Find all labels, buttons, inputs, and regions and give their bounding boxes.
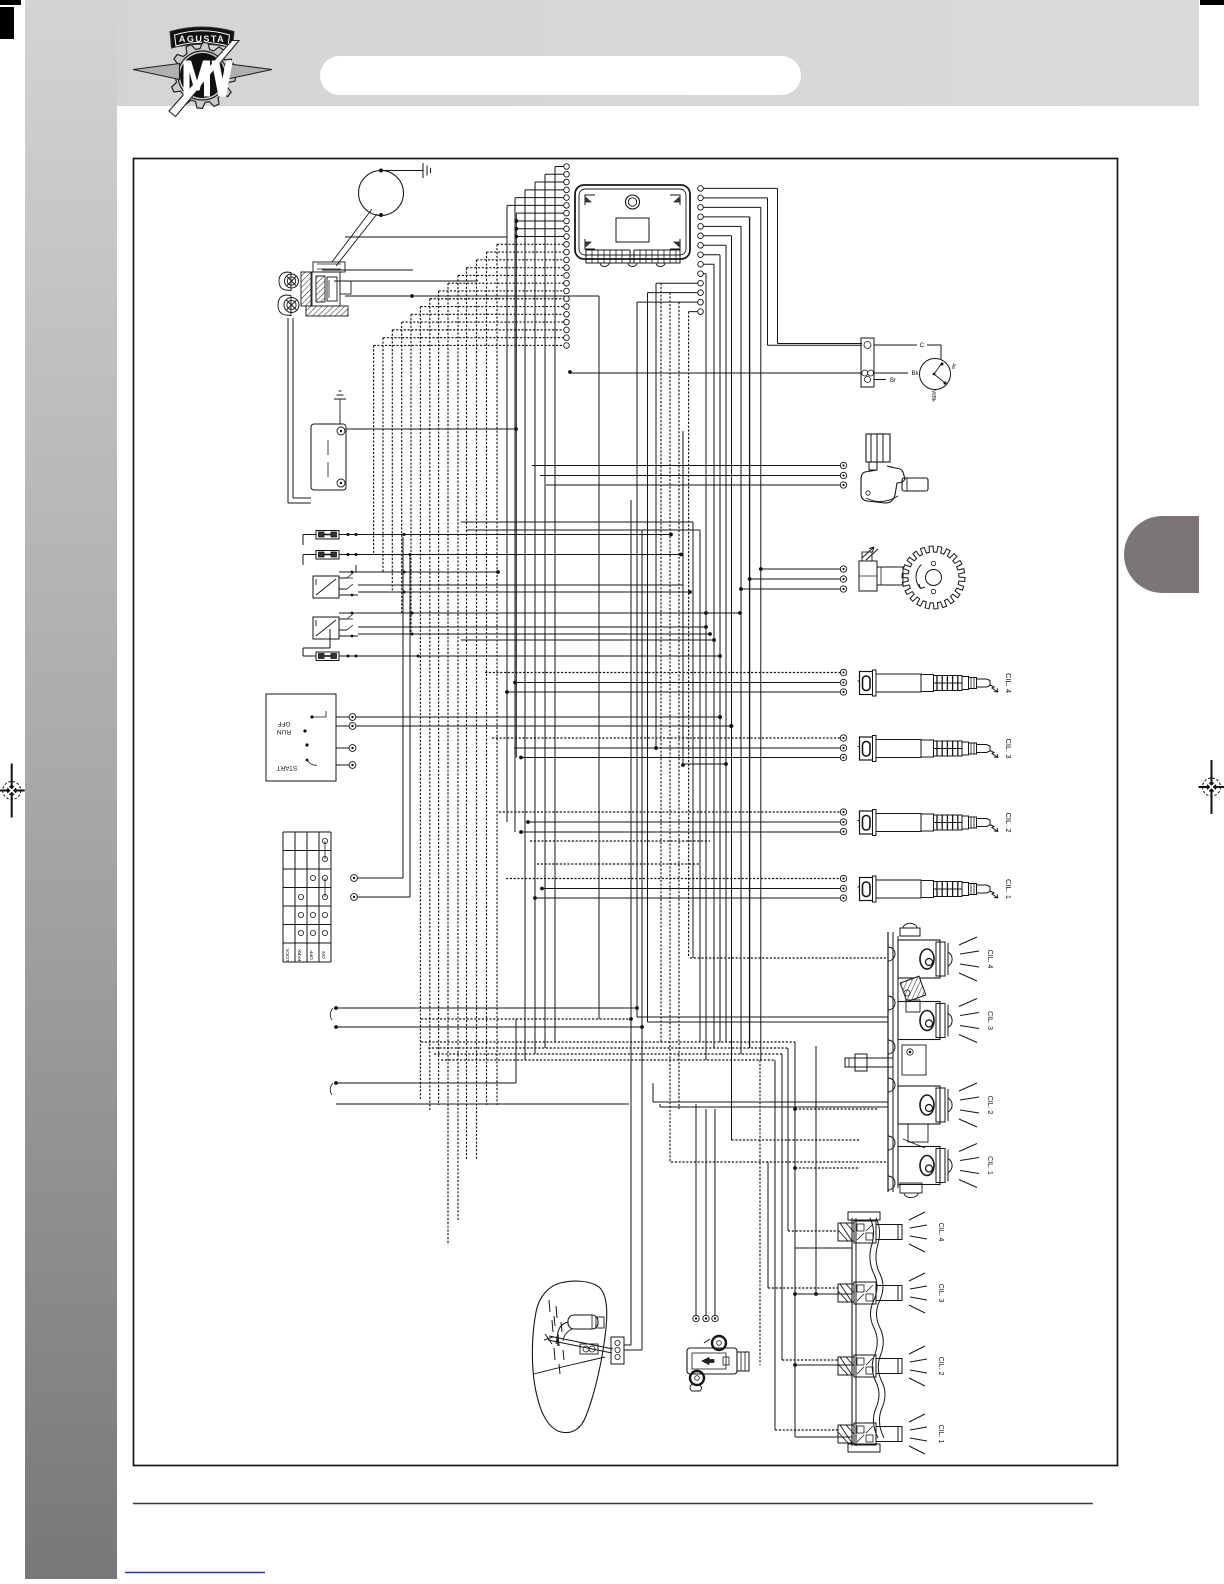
- svg-text:CIL. 4: CIL. 4: [1004, 673, 1013, 693]
- svg-text:CIL. 2: CIL. 2: [1004, 812, 1013, 832]
- svg-text:OFF: OFF: [277, 720, 290, 727]
- svg-text:OFF: OFF: [309, 950, 315, 960]
- svg-text:CIL. 3: CIL. 3: [1004, 738, 1013, 758]
- svg-text:START: START: [277, 764, 298, 771]
- svg-text:CIL. 4: CIL. 4: [937, 1223, 944, 1242]
- svg-text:Br: Br: [890, 378, 896, 384]
- svg-text:C: C: [920, 342, 925, 349]
- svg-text:WBk: WBk: [930, 390, 936, 402]
- svg-text:4a: 4a: [950, 363, 956, 369]
- svg-text:PARK: PARK: [297, 948, 303, 962]
- svg-text:LOCK: LOCK: [285, 948, 291, 962]
- svg-text:CIL. 1: CIL. 1: [1004, 879, 1013, 899]
- svg-text:CIL. 3: CIL. 3: [986, 1011, 993, 1030]
- svg-text:CIL. 3: CIL. 3: [937, 1284, 944, 1303]
- svg-text:CIL. 4: CIL. 4: [986, 950, 993, 969]
- svg-text:Bk: Bk: [911, 371, 919, 377]
- svg-text:CIL. 2: CIL. 2: [986, 1096, 993, 1115]
- svg-text:CIL. 2: CIL. 2: [937, 1357, 944, 1376]
- svg-text:RUN: RUN: [277, 728, 291, 735]
- svg-text:CIL. 1: CIL. 1: [937, 1425, 944, 1444]
- svg-text:ON: ON: [321, 951, 327, 959]
- svg-text:CIL. 1: CIL. 1: [986, 1156, 993, 1175]
